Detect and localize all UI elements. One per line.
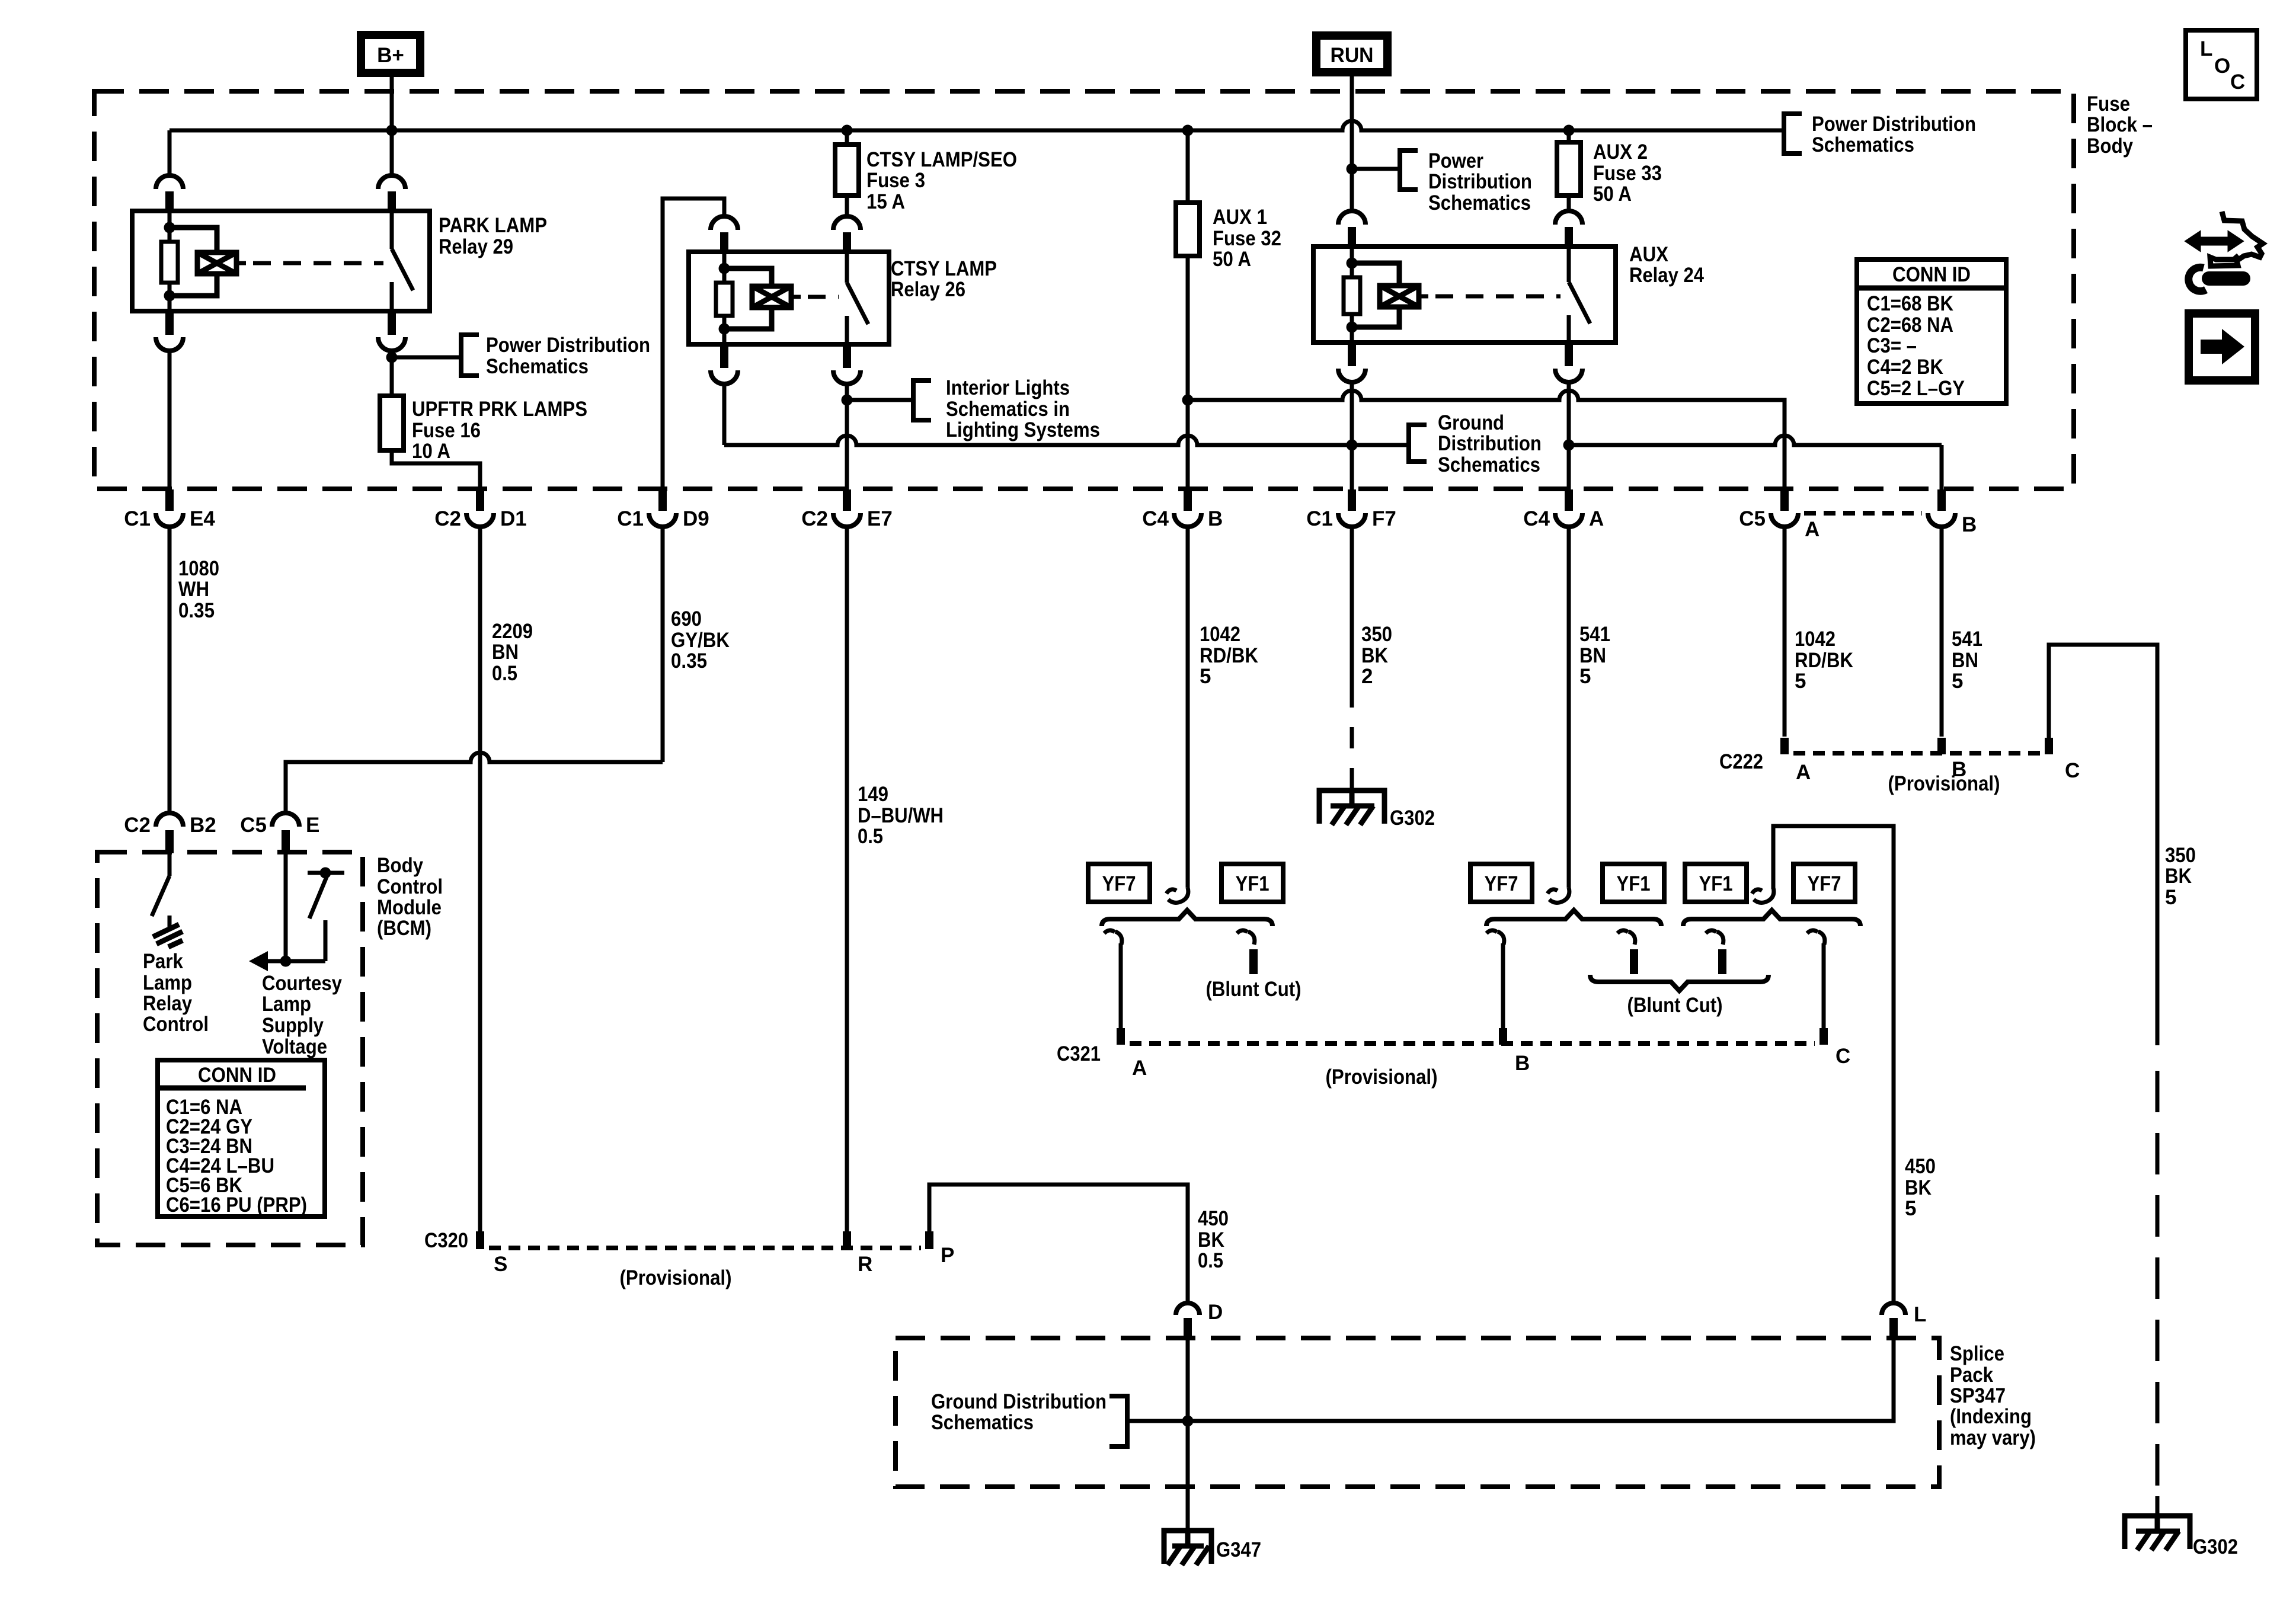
node: ground line junction dots bbox=[1347, 440, 1575, 451]
power feed B+ symbol bbox=[361, 35, 420, 73]
svg-text:10 A: 10 A bbox=[412, 440, 450, 463]
svg-text:G347: G347 bbox=[1216, 1538, 1261, 1561]
svg-text:BN: BN bbox=[1952, 649, 1978, 672]
terminal C321 pin B bbox=[1499, 1028, 1507, 1045]
svg-text:Lighting Systems: Lighting Systems bbox=[946, 418, 1100, 441]
svg-text:E: E bbox=[306, 814, 319, 837]
svg-text:C5=2 L–GY: C5=2 L–GY bbox=[1867, 377, 1965, 400]
svg-text:541: 541 bbox=[1579, 623, 1610, 646]
svg-text:G302: G302 bbox=[1390, 806, 1435, 830]
drop to C321 B with curl bbox=[1486, 930, 1504, 945]
svg-text:450: 450 bbox=[1198, 1207, 1229, 1230]
svg-text:may vary): may vary) bbox=[1950, 1426, 2036, 1449]
service icon (double arrow, outline, wrench) bbox=[2186, 212, 2263, 291]
svg-text:541: 541 bbox=[1952, 628, 1982, 651]
svg-text:450: 450 bbox=[1905, 1155, 1936, 1178]
table entries: fuse block CONN ID bbox=[1867, 292, 1965, 400]
fuse F3 CTSY LAMP/SEO Fuse 3 15A bbox=[835, 145, 859, 196]
relay K29 PARK LAMP Relay 29 bottom connectors bbox=[165, 310, 174, 335]
svg-text:E7: E7 bbox=[867, 507, 893, 530]
wire 1042 RD/BK 5 (B to YF7 splice) bbox=[1186, 527, 1190, 888]
svg-text:A: A bbox=[1589, 507, 1604, 530]
splice option box YF7 at x=2481 bbox=[1470, 864, 1532, 902]
wire: fuse 3 to CTSY relay switch pin bbox=[845, 196, 849, 216]
svg-text:2209: 2209 bbox=[492, 620, 533, 643]
wire: bus drop through AUX2 fuse to AUX relay switch bbox=[1567, 130, 1571, 142]
connector C2 pin B2 (BCM) bbox=[156, 813, 183, 853]
node: junction dot aux1/bus bbox=[1182, 395, 1194, 406]
svg-text:5: 5 bbox=[1579, 665, 1591, 688]
svg-text:YF1: YF1 bbox=[1236, 872, 1269, 895]
label: 450 BK 5 bbox=[1905, 1155, 1936, 1220]
svg-text:1042: 1042 bbox=[1795, 628, 1835, 651]
chassis ground (park lamp relay control) bbox=[153, 924, 183, 947]
svg-text:Control: Control bbox=[143, 1013, 209, 1036]
svg-text:BK: BK bbox=[1198, 1228, 1224, 1251]
label: C5 / A bbox=[1739, 507, 1819, 541]
svg-text:Relay: Relay bbox=[143, 992, 192, 1015]
label: Power Distribution Schematics (RUN) bbox=[1428, 149, 1532, 215]
svg-text:BN: BN bbox=[1579, 644, 1606, 667]
blunt cut stub (group 1) bbox=[1237, 930, 1255, 945]
svg-text:D–BU/WH: D–BU/WH bbox=[858, 804, 944, 827]
label: 541 BN 5 bbox=[1579, 623, 1610, 688]
svg-text:Power Distribution: Power Distribution bbox=[486, 334, 650, 357]
flag bracket: Power Distribution Schematics (RUN) bbox=[1400, 151, 1418, 190]
svg-text:5: 5 bbox=[1905, 1197, 1916, 1220]
relay K26 CTSY LAMP Relay 26 coil winding symbol bbox=[724, 268, 772, 329]
wire 350 BK 5 (C222 C up and over to G302 right, lower part dashed) bbox=[2049, 645, 2157, 1045]
svg-text:Power: Power bbox=[1428, 149, 1483, 172]
fuse block label bbox=[2087, 92, 2153, 158]
wire end curl (450 BK) bbox=[1752, 888, 1774, 902]
relay K26 CTSY LAMP Relay 26 bottom connectors bbox=[720, 343, 728, 368]
svg-text:C4=2 BK: C4=2 BK bbox=[1867, 356, 1943, 379]
relay K29 PARK LAMP Relay 29 coil pin wire bbox=[168, 211, 172, 228]
svg-text:Schematics: Schematics bbox=[931, 1411, 1034, 1434]
label: 149 D-BU/WH 0.5 bbox=[858, 783, 944, 848]
flag bracket: Ground Distribution Schematics (splice pack) bbox=[1109, 1396, 1127, 1446]
relay K24 AUX Relay 24 actuation dashed link bbox=[1419, 295, 1428, 299]
relay K29 PARK LAMP Relay 29 coil junction dots bbox=[164, 222, 175, 233]
relay K26 CTSY LAMP Relay 26 label bbox=[891, 257, 997, 301]
fuse F33 AUX 2 Fuse 33 50A bbox=[1557, 142, 1581, 196]
label: CTSY LAMP/SEO Fuse 3 15 A bbox=[866, 148, 1017, 213]
brace (blunt cut pair) bbox=[1590, 975, 1769, 991]
relay K29 PARK LAMP Relay 29 box bbox=[132, 211, 430, 311]
svg-text:D: D bbox=[1208, 1301, 1223, 1324]
wire: B+ feed from symbol into fuse block bbox=[390, 73, 394, 130]
label: C1 / F7 bbox=[1306, 507, 1396, 530]
label: 350 BK 5 bbox=[2165, 844, 2196, 909]
svg-text:RD/BK: RD/BK bbox=[1200, 644, 1258, 667]
svg-text:Voltage: Voltage bbox=[262, 1035, 327, 1058]
wire 450 BK 0.5 (C320 P up and over to splice pack D) bbox=[929, 1185, 1188, 1303]
label: UPFTR PRK LAMPS Fuse 16 10 A bbox=[412, 398, 587, 463]
continuation arrow box bbox=[2189, 313, 2255, 380]
fuse block - body (dashed component box) bbox=[94, 91, 2074, 489]
label: C1 / D9 bbox=[617, 507, 709, 530]
svg-text:BK: BK bbox=[1361, 644, 1388, 667]
LOC reference box bbox=[2186, 30, 2257, 99]
wire 2209 BN 0.5 (D1 to C320 S) bbox=[478, 527, 482, 1231]
relay K24 AUX Relay 24 bottom connectors bbox=[1348, 341, 1356, 366]
label: pin B bbox=[1962, 513, 1977, 536]
splice option box YF7 at x=1836 bbox=[1088, 864, 1150, 902]
svg-text:C1: C1 bbox=[617, 507, 644, 530]
svg-text:WH: WH bbox=[178, 578, 209, 601]
svg-text:15 A: 15 A bbox=[866, 190, 905, 213]
brace group 1 (YF7/YF1) bbox=[1102, 910, 1272, 926]
label: 350 BK 2 bbox=[1361, 623, 1392, 688]
svg-text:C5: C5 bbox=[1739, 507, 1766, 530]
node: RUN power distribution tap bbox=[1347, 164, 1400, 175]
label: Power Distribution Schematics (top right) bbox=[1812, 113, 1976, 156]
relay K29 PARK LAMP Relay 29 switch bbox=[390, 211, 394, 249]
svg-text:AUX 1: AUX 1 bbox=[1213, 206, 1267, 229]
svg-text:C: C bbox=[2230, 71, 2245, 94]
svg-text:RD/BK: RD/BK bbox=[1795, 649, 1853, 672]
svg-text:149: 149 bbox=[858, 783, 888, 806]
label: C2 / B2 bbox=[124, 814, 216, 837]
wire: B+ drop to park lamp relay switch bbox=[390, 130, 394, 175]
svg-text:CONN ID: CONN ID bbox=[1892, 263, 1971, 286]
svg-text:0.35: 0.35 bbox=[178, 599, 215, 622]
relay K29 PARK LAMP Relay 29 actuation dashed link bbox=[236, 261, 246, 265]
label: AUX 1 Fuse 32 50 A bbox=[1213, 206, 1281, 271]
svg-text:Relay 26: Relay 26 bbox=[891, 278, 965, 301]
svg-text:C1=68 BK: C1=68 BK bbox=[1867, 292, 1953, 315]
svg-text:C2: C2 bbox=[434, 507, 461, 530]
splice option box YF1 at x=2843 bbox=[1685, 864, 1747, 902]
relay K29 PARK LAMP Relay 29 top connectors bbox=[156, 175, 183, 189]
signal arrow: courtesy lamp supply voltage bbox=[249, 951, 286, 971]
svg-text:YF7: YF7 bbox=[1102, 872, 1136, 895]
relay K26 CTSY LAMP Relay 26 coil resistor bbox=[716, 283, 733, 316]
wire: splice ground bus to G347 bbox=[1127, 1339, 1194, 1531]
svg-text:50 A: 50 A bbox=[1213, 248, 1251, 271]
wire: ground line drop to connector B bbox=[1940, 445, 1944, 489]
svg-text:CTSY LAMP: CTSY LAMP bbox=[891, 257, 997, 280]
label: 1080 WH 0.35 bbox=[178, 557, 219, 622]
svg-text:C2: C2 bbox=[124, 814, 151, 837]
wire: relay 29 coil output down to connector E4 bbox=[168, 350, 172, 489]
svg-text:0.5: 0.5 bbox=[858, 825, 883, 848]
svg-text:L: L bbox=[2200, 37, 2212, 60]
svg-text:Fuse 16: Fuse 16 bbox=[412, 419, 481, 442]
wire 1042 RD/BK 5 (C5/A to C222 A) bbox=[1783, 527, 1787, 737]
connector D (splice pack) bbox=[1176, 1303, 1200, 1339]
svg-text:1080: 1080 bbox=[178, 557, 219, 580]
svg-text:Ground Distribution: Ground Distribution bbox=[931, 1390, 1107, 1413]
wire: CTSY relay switch output to connector E7 bbox=[845, 384, 849, 489]
svg-text:B: B bbox=[1515, 1052, 1530, 1075]
table entries: BCM CONN ID bbox=[166, 1096, 307, 1217]
ground G302 (bottom right) bbox=[2125, 1516, 2190, 1550]
label: C5 / E bbox=[240, 814, 319, 837]
terminal C321 pin A bbox=[1117, 1028, 1125, 1045]
svg-text:50 A: 50 A bbox=[1593, 183, 1632, 206]
svg-text:B+: B+ bbox=[377, 44, 404, 67]
wire: RUN feed down to AUX relay coil bbox=[1350, 72, 1354, 211]
wire 541 BN 5 (A to YF7 splice) bbox=[1567, 527, 1571, 888]
svg-text:G302: G302 bbox=[2193, 1535, 2238, 1558]
svg-text:(Blunt Cut): (Blunt Cut) bbox=[1206, 978, 1302, 1001]
svg-text:5: 5 bbox=[1952, 670, 1963, 693]
svg-text:AUX: AUX bbox=[1629, 243, 1669, 266]
svg-text:Ground: Ground bbox=[1438, 411, 1504, 434]
svg-text:690: 690 bbox=[671, 607, 702, 630]
relay K26 CTSY LAMP Relay 26 coil junction dots bbox=[719, 263, 730, 274]
wire: ground distribution line right segment (hop at x=3011) bbox=[1569, 436, 1942, 445]
svg-text:5: 5 bbox=[2165, 886, 2176, 909]
wire 350 BK 2 (F7 to G302, lower part dashed) bbox=[1350, 527, 1354, 708]
svg-text:GY/BK: GY/BK bbox=[671, 629, 730, 652]
svg-text:CTSY LAMP/SEO: CTSY LAMP/SEO bbox=[866, 148, 1017, 171]
svg-text:(Provisional): (Provisional) bbox=[1326, 1065, 1438, 1089]
BCM courtesy lamp supply switch bbox=[280, 853, 345, 967]
svg-text:C2: C2 bbox=[801, 507, 828, 530]
ground G347 bbox=[1164, 1531, 1211, 1565]
terminal C320 pin P bbox=[925, 1231, 933, 1249]
label: AUX 2 Fuse 33 50 A bbox=[1593, 140, 1662, 206]
svg-text:5: 5 bbox=[1200, 665, 1211, 688]
svg-text:Block –: Block – bbox=[2087, 113, 2153, 136]
relay K29 PARK LAMP Relay 29 coil winding symbol bbox=[170, 228, 217, 296]
relay K24 AUX Relay 24 coil winding symbol bbox=[1352, 263, 1399, 327]
svg-text:C: C bbox=[1835, 1045, 1850, 1068]
svg-text:Lamp: Lamp bbox=[143, 971, 192, 994]
svg-text:C: C bbox=[2065, 759, 2080, 782]
flag bracket: Power Distribution Schematics (relay 29) bbox=[461, 335, 479, 376]
svg-text:SP347: SP347 bbox=[1950, 1384, 2006, 1407]
svg-text:C320: C320 bbox=[424, 1229, 468, 1252]
terminal C321 pin C bbox=[1819, 1028, 1828, 1045]
relay K24 AUX Relay 24 coil pin wire bbox=[1350, 247, 1354, 263]
BCM park lamp relay control driver (switch to ground) bbox=[152, 853, 170, 927]
svg-text:C1: C1 bbox=[124, 507, 151, 530]
svg-text:(Provisional): (Provisional) bbox=[620, 1266, 732, 1289]
label: Body Control Module (BCM) bbox=[377, 854, 443, 940]
wire end curl (1042 RD/BK) bbox=[1166, 888, 1188, 902]
svg-text:E4: E4 bbox=[190, 507, 215, 530]
splice option box YF1 at x=2061 bbox=[1221, 864, 1283, 902]
relay K24 AUX Relay 24 top connectors bbox=[1338, 211, 1366, 225]
svg-text:Distribution: Distribution bbox=[1428, 170, 1532, 193]
svg-text:BN: BN bbox=[492, 641, 519, 664]
svg-text:Schematics in: Schematics in bbox=[946, 398, 1070, 421]
brace group 2 (YF7/YF1) bbox=[1486, 910, 1661, 926]
wire: L into splice pack, corner to ground bus bbox=[1188, 1339, 1894, 1421]
wire: bus drop to park lamp relay coil bbox=[168, 130, 172, 175]
splice option box YF7 at x=3026 bbox=[1793, 864, 1855, 902]
label: Ground Distribution Schematics (fuse block) bbox=[1438, 411, 1542, 476]
svg-text:5: 5 bbox=[1795, 670, 1806, 693]
connector C5 pin A bbox=[1771, 489, 1798, 527]
relay K26 CTSY LAMP Relay 26 actuation dashed link bbox=[791, 295, 801, 299]
relay K24 AUX Relay 24 coil resistor bbox=[1344, 277, 1360, 314]
label: Ground Distribution Schematics (splice pack) bbox=[931, 1390, 1107, 1434]
power feed RUN symbol bbox=[1316, 36, 1387, 72]
svg-text:Fuse 32: Fuse 32 bbox=[1213, 227, 1281, 250]
wire 690 GY/BK 0.35 (D9 down, left to BCM E; hops over 2209 wire) bbox=[286, 527, 663, 813]
ground G302 (fuse block side) bbox=[1319, 790, 1384, 825]
module: Body Control Module (BCM) dashed box bbox=[97, 852, 363, 1245]
label: 690 GY/BK 0.35 bbox=[671, 607, 730, 673]
brace group 3 (YF1/YF7) bbox=[1683, 910, 1860, 926]
relay K24 AUX Relay 24 box bbox=[1313, 247, 1616, 343]
connector C5 pin E (BCM) bbox=[272, 813, 299, 853]
connector C222 dashed row bbox=[1793, 751, 2042, 756]
svg-text:350: 350 bbox=[1361, 623, 1392, 646]
svg-text:YF7: YF7 bbox=[1485, 872, 1518, 895]
relay K26 CTSY LAMP Relay 26 top connectors bbox=[711, 216, 738, 230]
svg-text:A: A bbox=[1805, 518, 1819, 541]
svg-text:Body: Body bbox=[377, 854, 423, 877]
connector C1 pin D9 bbox=[649, 489, 676, 527]
label: Courtesy Lamp Supply Voltage bbox=[262, 972, 342, 1058]
svg-text:350: 350 bbox=[2165, 844, 2196, 867]
relay K29 PARK LAMP Relay 29 coil resistor bbox=[161, 242, 178, 283]
drop to C321 C with curl bbox=[1807, 930, 1825, 945]
svg-text:C4: C4 bbox=[1142, 507, 1169, 530]
svg-text:PARK LAMP: PARK LAMP bbox=[439, 214, 547, 237]
svg-text:L: L bbox=[1914, 1303, 1926, 1326]
svg-text:C321: C321 bbox=[1057, 1042, 1101, 1065]
fuse F32 AUX 1 Fuse 32 50A bbox=[1176, 203, 1200, 256]
node: junction at power distribution tap bbox=[386, 352, 462, 363]
wire 450 BK 5 (YF7 group up over to splice pack L) bbox=[1773, 826, 1894, 1303]
connector C2 pin E7 bbox=[833, 489, 861, 527]
svg-text:B: B bbox=[1962, 513, 1977, 536]
blunt cut stub (group 2) bbox=[1617, 930, 1635, 945]
relay K26 CTSY LAMP Relay 26 coil pin wire bbox=[722, 252, 727, 268]
flag bracket: Power Distribution Schematics (top right) bbox=[1784, 114, 1802, 153]
terminal C222 pin A bbox=[1780, 738, 1789, 754]
connector C4 pin A bbox=[1555, 489, 1582, 527]
label: Splice Pack SP347 (Indexing may vary) bbox=[1950, 1342, 2036, 1449]
svg-text:0.35: 0.35 bbox=[671, 649, 707, 673]
svg-text:D9: D9 bbox=[683, 507, 709, 530]
connector C4 pin B bbox=[1174, 489, 1201, 527]
label: C1 / E4 bbox=[124, 507, 215, 530]
svg-text:BK: BK bbox=[1905, 1176, 1932, 1199]
connector C1 pin F7 bbox=[1338, 489, 1366, 527]
svg-text:C5: C5 bbox=[240, 814, 267, 837]
label: C4 / B bbox=[1142, 507, 1223, 530]
svg-text:Supply: Supply bbox=[262, 1014, 324, 1037]
wire: aux feed bus (hops over x=2281,2647, turns down to C5/A) bbox=[1188, 391, 1785, 489]
svg-text:YF1: YF1 bbox=[1699, 872, 1733, 895]
svg-text:0.5: 0.5 bbox=[1198, 1249, 1223, 1272]
svg-text:F7: F7 bbox=[1372, 507, 1396, 530]
svg-text:Control: Control bbox=[377, 875, 443, 898]
flag bracket: Ground Distribution Schematics (fuse block) bbox=[1409, 425, 1427, 462]
connector C2 pin D1 bbox=[466, 489, 494, 527]
svg-text:P: P bbox=[941, 1244, 954, 1267]
wire 149 D-BU/WH 0.5 (E7 to C320 R) bbox=[845, 527, 849, 1231]
svg-text:O: O bbox=[2214, 55, 2230, 78]
wire: main B+ bus (hops over RUN wire at x=2281) bbox=[170, 121, 1784, 130]
svg-text:S: S bbox=[494, 1253, 507, 1276]
svg-text:BK: BK bbox=[2165, 865, 2192, 888]
label: C2 / E7 bbox=[801, 507, 893, 530]
svg-text:(Provisional): (Provisional) bbox=[1888, 772, 2000, 795]
relay K24 AUX Relay 24 label bbox=[1629, 243, 1704, 287]
connector C1 pin E4 bbox=[156, 489, 183, 527]
drop to C321 A with curl bbox=[1104, 930, 1122, 945]
label: C2 / D1 bbox=[434, 507, 527, 530]
svg-text:B: B bbox=[1208, 507, 1223, 530]
node: interior lights tap junction bbox=[842, 395, 914, 406]
node: bus junction dots bbox=[386, 125, 1575, 136]
svg-text:UPFTR PRK LAMPS: UPFTR PRK LAMPS bbox=[412, 398, 587, 421]
svg-text:Body: Body bbox=[2087, 135, 2133, 158]
blunt cut stub (group 3) bbox=[1706, 930, 1723, 945]
terminal C222 pin C bbox=[2045, 738, 2053, 754]
svg-text:Power Distribution: Power Distribution bbox=[1812, 113, 1976, 136]
svg-text:Relay 29: Relay 29 bbox=[439, 235, 513, 258]
svg-text:Lamp: Lamp bbox=[262, 993, 311, 1016]
label: 2209 BN 0.5 bbox=[492, 620, 533, 685]
svg-text:Splice: Splice bbox=[1950, 1342, 2004, 1365]
svg-text:A: A bbox=[1132, 1057, 1147, 1080]
wire: D9 feed to CTSY relay coil (L bend) bbox=[663, 199, 724, 489]
svg-text:B2: B2 bbox=[190, 814, 216, 837]
svg-text:0.5: 0.5 bbox=[492, 662, 517, 685]
svg-text:1042: 1042 bbox=[1200, 623, 1240, 646]
wire 1080 WH 0.35 (E4 to BCM B2) bbox=[168, 527, 172, 813]
splice option box YF1 at x=2704 bbox=[1603, 864, 1664, 902]
wire 541 BN 5 (B to C222 B) bbox=[1940, 527, 1944, 737]
svg-text:CONN ID: CONN ID bbox=[198, 1064, 276, 1087]
svg-text:C1: C1 bbox=[1306, 507, 1333, 530]
svg-text:Distribution: Distribution bbox=[1438, 432, 1542, 455]
svg-text:(BCM): (BCM) bbox=[377, 917, 431, 940]
wire: AUX relay coil output down to connector F7 bbox=[1350, 382, 1354, 489]
wire: AUX relay switch output down to connector A bbox=[1567, 382, 1571, 489]
svg-text:Schematics: Schematics bbox=[1438, 453, 1540, 476]
svg-text:2: 2 bbox=[1361, 665, 1373, 688]
splice pack SP347 dashed box bbox=[896, 1338, 1939, 1487]
terminal C320 pin R bbox=[843, 1231, 851, 1249]
fuse F16 UPFTR PRK LAMPS Fuse 16 10A bbox=[380, 396, 404, 450]
svg-text:YF1: YF1 bbox=[1617, 872, 1651, 895]
svg-text:(Blunt Cut): (Blunt Cut) bbox=[1627, 994, 1723, 1017]
wire: relay 29 switch output down bbox=[390, 350, 394, 396]
svg-text:C3= –: C3= – bbox=[1867, 334, 1917, 357]
svg-text:Schematics: Schematics bbox=[1812, 133, 1914, 156]
svg-text:C6=16 PU (PRP): C6=16 PU (PRP) bbox=[166, 1193, 307, 1217]
svg-text:C4: C4 bbox=[1523, 507, 1550, 530]
wire: fuse 16 output jog to connector D1 bbox=[392, 450, 480, 489]
svg-text:Module: Module bbox=[377, 896, 442, 919]
svg-text:Schematics: Schematics bbox=[1428, 191, 1531, 215]
connector pin B (provisional) bbox=[1928, 489, 1955, 527]
svg-text:Courtesy: Courtesy bbox=[262, 972, 342, 995]
svg-text:Pack: Pack bbox=[1950, 1363, 1993, 1387]
relay K29 PARK LAMP Relay 29 label bbox=[439, 214, 547, 258]
label: 1042 RD/BK 5 (right) bbox=[1795, 628, 1853, 693]
label: Park Lamp Relay Control bbox=[143, 950, 209, 1036]
svg-text:A: A bbox=[1796, 761, 1811, 784]
svg-text:Interior Lights: Interior Lights bbox=[946, 376, 1070, 399]
label: Interior Lights Schematics in Lighting Systems bbox=[946, 376, 1100, 441]
label: 541 BN 5 (right) bbox=[1952, 628, 1982, 693]
svg-text:Fuse 33: Fuse 33 bbox=[1593, 162, 1662, 185]
svg-text:YF7: YF7 bbox=[1808, 872, 1841, 895]
wire stub into ground G302 (bottom right) bbox=[2156, 1496, 2160, 1516]
